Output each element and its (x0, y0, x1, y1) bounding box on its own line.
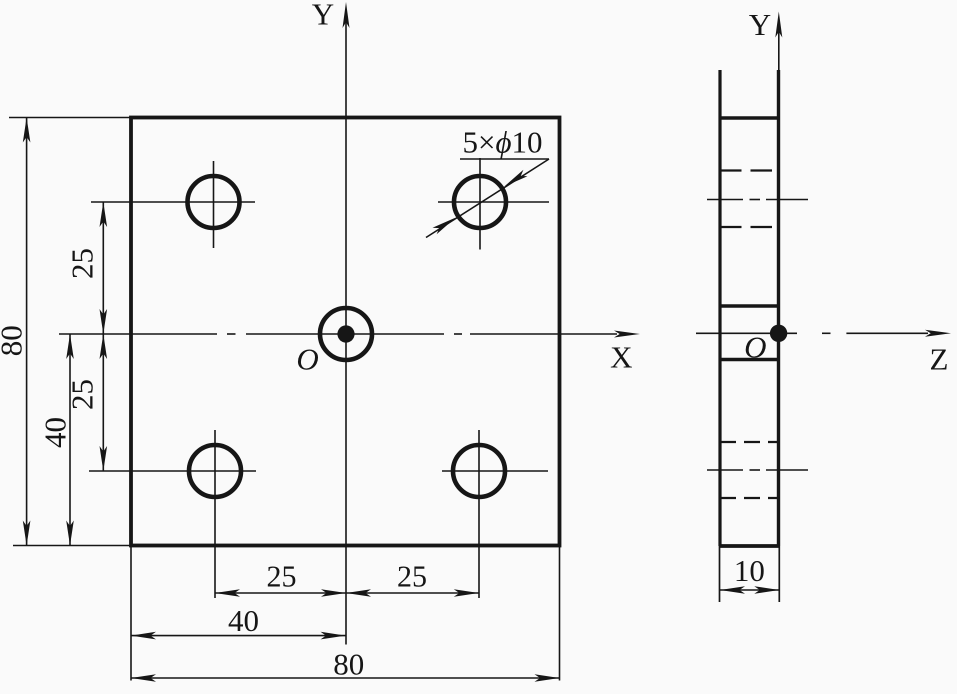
center hole circle at origin O (320, 308, 372, 360)
side view left edge (718, 70, 721, 546)
extension line top-left (for dim 80) (9, 117, 131, 119)
hole bottom-left center lines (89, 430, 256, 598)
dim 25 bl arrow left (215, 589, 240, 597)
svg-text:Z: Z (930, 342, 949, 377)
side view bottom edge (720, 544, 779, 548)
side view lower hole centerline (dash-dot) (707, 469, 808, 471)
dim 10 arrow left (720, 586, 745, 594)
Z axis arrowhead (925, 330, 951, 337)
hole bottom-left circle (189, 445, 241, 497)
dim 25 bl arrow right (321, 589, 346, 597)
dim 40 bottom arrow left (131, 632, 156, 640)
origin O dot (front view) (337, 325, 354, 342)
extension line bottom from plate left edge (130, 546, 132, 681)
hole top-left circle (188, 176, 240, 228)
svg-text:5×ϕ10: 5×ϕ10 (463, 125, 543, 160)
dim 80 left arrow up (23, 118, 31, 143)
Z axis line (dash-dot) (696, 332, 928, 334)
svg-text:Y: Y (312, 0, 334, 32)
dim 25 br arrow left (346, 589, 371, 597)
side view hidden line upper hole top (720, 169, 779, 171)
leader line through top-right hole (426, 159, 549, 238)
hole top-right circle (454, 176, 506, 228)
dimension line 25 upper (left vertical) (102, 202, 104, 334)
dim 80 bottom arrow right (535, 674, 560, 682)
plate outline (front view, 80x80 square) (131, 118, 560, 546)
svg-text:40: 40 (228, 603, 259, 638)
leader arrowhead upper (504, 170, 527, 187)
side view hidden line upper hole bottom (720, 226, 779, 228)
svg-text:X: X (610, 340, 632, 375)
Y axis line (side view) (778, 30, 780, 72)
side view right edge (777, 70, 780, 546)
svg-text:O: O (296, 342, 318, 377)
dim 25 upper arrow down (100, 309, 108, 334)
hole top-right center lines (438, 158, 549, 250)
svg-text:10: 10 (734, 553, 765, 588)
X axis line (front view, dash-dot) (59, 333, 617, 335)
extension line bottom from plate right edge (559, 546, 561, 681)
svg-text:25: 25 (65, 248, 100, 279)
side view extension below left (719, 546, 721, 602)
label underline (460, 158, 549, 160)
extension line bottom-left (for dim 80) (13, 545, 131, 547)
leader arrowhead lower (433, 218, 456, 235)
dim 80 bottom arrow left (131, 674, 156, 682)
Y axis arrowhead (front view) (343, 2, 350, 28)
dimension line 25 lower (left vertical) (102, 334, 104, 471)
svg-text:O: O (744, 330, 766, 365)
dimension line 80 (left vertical) (26, 118, 28, 546)
svg-text:40: 40 (38, 417, 73, 448)
dim 40 bottom arrow right (321, 632, 346, 640)
svg-text:80: 80 (333, 647, 364, 682)
svg-text:25: 25 (267, 559, 297, 594)
hole top-left center lines (91, 161, 255, 248)
svg-text:25: 25 (397, 559, 427, 594)
side view center hole upper edge (720, 304, 779, 308)
dim 25 upper arrow up (100, 202, 108, 227)
X axis arrowhead (614, 331, 640, 338)
Y axis arrowhead (side view) (775, 12, 782, 38)
svg-text:Y: Y (749, 7, 771, 42)
hole bottom-right center lines (442, 430, 548, 598)
dim 40 left arrow up (66, 334, 74, 359)
svg-text:80: 80 (0, 325, 29, 356)
dim 25 br arrow right (454, 589, 479, 597)
side view upper hole centerline (dash-dot) (707, 199, 808, 201)
dimension line 25 bottom-left (215, 592, 346, 594)
origin O dot (side view) (770, 325, 787, 342)
dim 80 left arrow down (23, 521, 31, 546)
hole bottom-right circle (453, 445, 505, 497)
dim 25 lower arrow up (100, 334, 108, 359)
Y axis line (front view) (345, 20, 347, 645)
dimension line 40 (left vertical) (69, 334, 71, 546)
dimension line 40 bottom (131, 635, 346, 637)
side view extension below right (778, 546, 780, 602)
dim 10 arrow right (754, 586, 779, 594)
dim 40 left arrow down (66, 521, 74, 546)
svg-text:25: 25 (65, 379, 100, 410)
side view center hole lower edge (720, 358, 779, 362)
side view hidden line lower hole top (720, 441, 779, 443)
dim 25 lower arrow down (100, 446, 108, 471)
dimension line 25 bottom-right (346, 592, 479, 594)
side view hidden line lower hole bottom (720, 497, 779, 499)
dimension line 10 (side view) (720, 589, 779, 591)
side view top edge (720, 116, 779, 119)
dimension line 80 bottom (131, 677, 560, 679)
